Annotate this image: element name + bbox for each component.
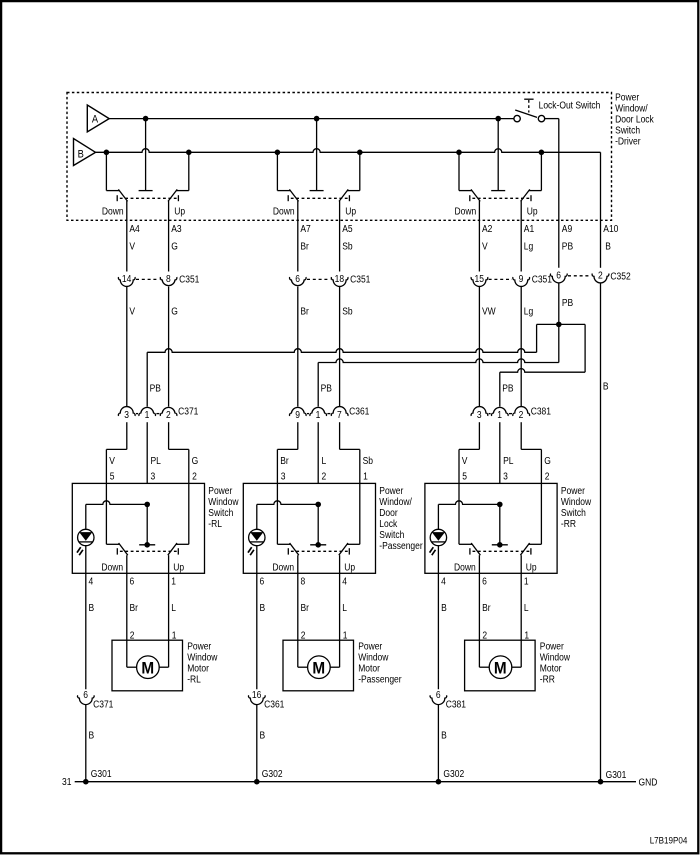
svg-text:1: 1 [524, 630, 529, 641]
power window switch RR U4 up switch [540, 483, 542, 544]
svg-text:Window: Window [561, 496, 591, 507]
wire PB bus 2 (to C361 pin 1) [317, 363, 319, 407]
connector C381 pin 1 [491, 407, 508, 416]
svg-text:G: G [544, 455, 551, 466]
svg-text:PB: PB [321, 383, 332, 394]
wire jog to box pin 3 [297, 422, 299, 449]
svg-text:2: 2 [166, 409, 171, 420]
svg-text:B: B [260, 603, 266, 614]
power window/door lock switch passenger U3 up switch [359, 483, 361, 544]
driver RR switch linkage [472, 197, 529, 199]
svg-text:-RR: -RR [561, 518, 576, 529]
svg-text:G302: G302 [262, 768, 283, 779]
svg-text:PB: PB [562, 241, 573, 252]
power window switch RL U2 LED output wire [85, 546, 87, 690]
svg-text:Br: Br [130, 603, 138, 614]
connector C352 pin 6 [550, 274, 567, 283]
power window switch RL U2 down switch [105, 483, 107, 544]
svg-text:C381: C381 [446, 699, 466, 710]
power window switch RR U4 down switch [458, 483, 460, 544]
svg-text:B: B [260, 730, 266, 741]
svg-text:8: 8 [166, 274, 171, 285]
svg-text:L7B19P04: L7B19P04 [650, 835, 688, 846]
power window switch RR U4 LED output wire [437, 546, 439, 690]
svg-text:Up: Up [527, 206, 538, 217]
driver RR pole common [497, 119, 499, 191]
connector C371 links [136, 413, 138, 415]
wire bus B [96, 149, 601, 153]
svg-text:G: G [171, 241, 178, 252]
wire jog to box pin 5 [126, 422, 128, 449]
svg-text:4: 4 [342, 576, 347, 587]
power window/door lock switch passenger U3 switch linkage [291, 550, 348, 552]
connector C371 pin 3 [118, 407, 135, 416]
power window/door lock switch passenger U3 motor feed wires [297, 555, 299, 667]
svg-text:B: B [441, 603, 447, 614]
svg-text:9: 9 [519, 274, 524, 285]
connector C361 links [307, 413, 309, 415]
connector triangle A [87, 105, 109, 132]
wire PB branch 3 (to C381 pin 1) [559, 323, 585, 325]
wire pin A4 [126, 201, 128, 272]
driver passenger up switch [359, 152, 361, 190]
svg-text:Switch: Switch [615, 125, 640, 136]
connector C371 pin 1 [139, 407, 156, 416]
svg-text:2: 2 [130, 630, 135, 641]
svg-text:Window: Window [208, 496, 238, 507]
wire Br to C361 [297, 287, 299, 407]
svg-text:V: V [129, 306, 135, 317]
svg-text:1: 1 [172, 630, 177, 641]
svg-text:1: 1 [497, 409, 502, 420]
connector C361 pin 7 [331, 407, 348, 416]
svg-text:1: 1 [316, 409, 321, 420]
svg-text:6: 6 [482, 576, 487, 587]
driver passenger switch linkage [291, 197, 348, 199]
svg-text:Motor: Motor [187, 663, 209, 674]
svg-text:1: 1 [145, 409, 150, 420]
driver RR up switch [540, 152, 542, 190]
connector C351 pin 15 [471, 277, 488, 286]
power window/door lock switch passenger U3 LED [256, 504, 258, 529]
wire B from C352 pin 2 to ground [600, 283, 602, 782]
svg-text:2: 2 [322, 471, 327, 482]
svg-text:A5: A5 [342, 223, 352, 234]
svg-text:2: 2 [192, 471, 197, 482]
svg-text:4: 4 [441, 576, 446, 587]
svg-text:Motor: Motor [540, 663, 562, 674]
svg-text:L: L [322, 455, 327, 466]
power window motor RR M3 enclosure [465, 640, 535, 691]
svg-text:Window/: Window/ [379, 496, 412, 507]
connector C351 link [307, 278, 330, 280]
wire jog to box pin 1 [339, 422, 341, 449]
node dots on bus B [104, 150, 110, 156]
svg-text:A1: A1 [524, 223, 534, 234]
wire VW to C381 [478, 287, 480, 407]
svg-text:2: 2 [545, 471, 550, 482]
svg-text:Power: Power [208, 485, 232, 496]
svg-text:6: 6 [556, 270, 561, 281]
wire pin A7 [297, 201, 299, 272]
power window switch RR U4 pole common [499, 504, 501, 544]
svg-text:G: G [171, 306, 178, 317]
svg-text:1: 1 [171, 576, 176, 587]
svg-text:3: 3 [477, 409, 482, 420]
svg-text:6: 6 [260, 576, 265, 587]
svg-text:Power: Power [561, 485, 585, 496]
power window switch RR U4 motor feed wires [478, 555, 480, 667]
svg-text:Down: Down [272, 562, 294, 573]
connector C381 links [489, 413, 491, 415]
svg-text:Down: Down [101, 562, 123, 573]
svg-text:Br: Br [482, 603, 490, 614]
svg-text:B: B [89, 730, 95, 741]
svg-text:B: B [441, 730, 447, 741]
svg-text:8: 8 [301, 576, 306, 587]
svg-text:G301: G301 [606, 769, 627, 780]
wire Lg to C381 [520, 287, 522, 407]
svg-text:Down: Down [454, 562, 476, 573]
power window/door lock switch passenger U3 enclosure [243, 483, 375, 573]
wire PB bus 1 (to C371 pin 1) [146, 352, 148, 406]
svg-text:C351: C351 [532, 274, 552, 285]
svg-text:B: B [89, 603, 95, 614]
wire PB from C352 pin 6 [558, 283, 560, 363]
svg-text:-RR: -RR [540, 674, 555, 685]
svg-text:Br: Br [300, 306, 308, 317]
svg-text:B: B [78, 149, 84, 161]
svg-text:Power: Power [379, 485, 403, 496]
power window motor RL M1 enclosure [112, 640, 183, 691]
wire to box pin 2 [317, 422, 319, 483]
power window switch RR U4 enclosure [425, 483, 557, 573]
svg-text:A4: A4 [129, 223, 139, 234]
connector C361 pin 9 [289, 407, 306, 416]
svg-text:A7: A7 [300, 223, 310, 234]
driver RL switch linkage [120, 197, 177, 199]
svg-text:Window/: Window/ [615, 103, 648, 114]
wire pin A1 [520, 201, 522, 272]
driver RR down switch [458, 152, 460, 190]
svg-text:Up: Up [173, 562, 184, 573]
svg-text:M: M [494, 659, 507, 678]
svg-text:Power: Power [187, 641, 211, 652]
svg-text:PL: PL [503, 455, 513, 466]
svg-text:V: V [129, 241, 135, 252]
svg-text:18: 18 [335, 274, 344, 285]
svg-text:2: 2 [519, 409, 524, 420]
svg-text:3: 3 [124, 409, 129, 420]
power window switch RL U2 up switch [188, 483, 190, 544]
power window switch RL U2 pole common [146, 504, 148, 544]
power window switch RL U2 motor feed wires [126, 555, 128, 667]
wire pin A5 [339, 201, 341, 272]
wire G to C371 [168, 287, 170, 407]
power window / door lock switch driver dashed enclosure [67, 93, 612, 221]
ground bus junction dots [83, 779, 89, 785]
svg-text:5: 5 [462, 471, 467, 482]
svg-text:C351: C351 [350, 274, 370, 285]
svg-text:C361: C361 [349, 406, 369, 417]
svg-text:6: 6 [295, 274, 300, 285]
svg-text:Switch: Switch [561, 507, 586, 518]
svg-text:Lg: Lg [524, 241, 533, 252]
svg-text:GND: GND [639, 777, 658, 788]
svg-text:C371: C371 [178, 406, 198, 417]
power window switch RR U4 LED [437, 504, 439, 529]
svg-text:6: 6 [436, 689, 441, 700]
svg-text:Down: Down [102, 206, 124, 217]
connector C352 link [568, 275, 591, 277]
wire jog to box pin 2 [520, 422, 522, 449]
svg-text:Up: Up [344, 562, 355, 573]
svg-text:B: B [605, 241, 611, 252]
svg-text:Motor: Motor [358, 663, 380, 674]
svg-text:A10: A10 [603, 223, 618, 234]
power window motor passenger M2 enclosure [283, 640, 354, 691]
wire to box pin 3 [499, 422, 501, 483]
svg-text:Br: Br [301, 603, 309, 614]
driver RL up switch [188, 152, 190, 190]
power window switch RL U2 LED [85, 504, 87, 529]
driver passenger pole common [316, 119, 318, 191]
svg-text:Sb: Sb [342, 306, 352, 317]
connector C351 pin 8 [160, 277, 177, 286]
power window motor RL M1 motor symbol [137, 656, 160, 679]
svg-text:7: 7 [337, 409, 342, 420]
svg-text:-Driver: -Driver [615, 136, 640, 147]
svg-text:A2: A2 [482, 223, 492, 234]
svg-text:Br: Br [280, 455, 288, 466]
svg-text:Sb: Sb [363, 455, 373, 466]
svg-text:Switch: Switch [208, 507, 233, 518]
power window/door lock switch passenger U3 illumination wire [257, 501, 318, 505]
power window motor RR M3 motor symbol [489, 656, 512, 679]
ground bus wire [75, 781, 636, 783]
wire B to ground [85, 705, 87, 782]
svg-text:V: V [109, 455, 115, 466]
svg-text:3: 3 [281, 471, 286, 482]
lock-out switch actuator [524, 98, 533, 100]
connector C361 pin 1 [310, 407, 327, 416]
svg-text:-RL: -RL [208, 518, 222, 529]
svg-text:VW: VW [482, 306, 496, 317]
wire lock-out to A9 corner [545, 118, 559, 120]
svg-text:Down: Down [273, 206, 295, 217]
svg-text:5: 5 [110, 471, 115, 482]
driver passenger down switch [276, 152, 278, 190]
svg-text:Window: Window [540, 652, 570, 663]
svg-text:14: 14 [122, 274, 131, 285]
svg-text:Up: Up [526, 562, 537, 573]
svg-text:Lock: Lock [379, 518, 397, 529]
svg-text:C351: C351 [179, 274, 199, 285]
svg-text:M: M [141, 659, 154, 678]
svg-text:-Passenger: -Passenger [379, 540, 422, 551]
power window switch RR U4 illumination wire [438, 501, 499, 505]
svg-text:A: A [92, 114, 98, 126]
wire B to ground [437, 705, 439, 782]
svg-text:1: 1 [343, 630, 348, 641]
svg-text:2: 2 [482, 630, 487, 641]
node PB junction [556, 322, 562, 328]
svg-text:3: 3 [503, 471, 508, 482]
connector C371 pin 2 [160, 407, 177, 416]
svg-text:G: G [192, 455, 199, 466]
svg-text:31: 31 [62, 777, 71, 788]
svg-text:C352: C352 [610, 271, 630, 282]
power window/door lock switch passenger U3 pole common [317, 504, 319, 544]
connector C351 pin 14 [118, 277, 135, 286]
svg-text:L: L [342, 603, 347, 614]
lock-out switch contact circles [514, 115, 520, 121]
power window switch RL U2 illumination wire [86, 501, 147, 505]
svg-text:PL: PL [151, 455, 161, 466]
wire Sb to C361 [339, 287, 341, 407]
connector C352 pin 2 [592, 274, 609, 283]
svg-text:Switch: Switch [379, 529, 404, 540]
svg-text:B: B [603, 381, 609, 392]
svg-text:Door: Door [379, 507, 397, 518]
wire B to ground [256, 705, 258, 782]
connector C381 pin 2 [513, 407, 530, 416]
svg-text:Power: Power [540, 641, 564, 652]
svg-text:Power: Power [358, 641, 382, 652]
svg-text:Lock-Out Switch: Lock-Out Switch [539, 100, 601, 111]
svg-text:C361: C361 [264, 699, 284, 710]
power window/door lock switch passenger U3 LED output wire [256, 546, 258, 690]
connector C351 pin 18 [331, 277, 348, 286]
svg-text:1: 1 [524, 576, 529, 587]
svg-text:C371: C371 [93, 699, 113, 710]
svg-text:Power: Power [615, 92, 639, 103]
svg-text:Sb: Sb [342, 241, 352, 252]
svg-text:-Passenger: -Passenger [358, 674, 401, 685]
svg-text:6: 6 [130, 576, 135, 587]
svg-text:2: 2 [598, 270, 603, 281]
svg-text:PB: PB [502, 383, 513, 394]
svg-text:1: 1 [363, 471, 368, 482]
wire bus A [109, 118, 514, 120]
wire jog to box pin 2 [168, 422, 170, 449]
svg-text:Window: Window [358, 652, 388, 663]
lock-out switch blade [515, 110, 537, 117]
connector triangle B [74, 139, 96, 166]
svg-text:L: L [524, 603, 529, 614]
svg-text:Up: Up [345, 206, 356, 217]
wire pin A2 [478, 201, 480, 272]
svg-text:G301: G301 [91, 768, 112, 779]
wire to box pin 3 [146, 422, 148, 483]
connector C351 pin 9 [513, 277, 530, 286]
power window/door lock switch passenger U3 down switch [276, 483, 278, 544]
svg-text:Window: Window [187, 652, 217, 663]
svg-text:Down: Down [455, 206, 477, 217]
svg-text:V: V [462, 455, 468, 466]
power window switch RR U4 switch linkage [473, 550, 530, 552]
svg-text:2: 2 [301, 630, 306, 641]
svg-text:G302: G302 [443, 768, 464, 779]
node dots on bus A [143, 116, 149, 122]
wire jog to box pin 5 [478, 422, 480, 449]
driver RL down switch [105, 152, 107, 190]
connector C381 pin 3 [471, 407, 488, 416]
svg-text:M: M [312, 659, 325, 678]
svg-text:V: V [482, 241, 488, 252]
power window switch RL U2 enclosure [72, 483, 204, 573]
svg-text:15: 15 [474, 274, 483, 285]
connector C351 pin 6 [289, 277, 306, 286]
svg-text:16: 16 [252, 689, 261, 700]
svg-text:PB: PB [562, 297, 573, 308]
svg-text:PB: PB [150, 383, 161, 394]
svg-text:9: 9 [295, 409, 300, 420]
svg-text:3: 3 [151, 471, 156, 482]
svg-text:4: 4 [89, 576, 94, 587]
svg-text:Br: Br [300, 241, 308, 252]
svg-text:6: 6 [83, 689, 88, 700]
driver RL pole common [145, 119, 147, 191]
svg-text:Door Lock: Door Lock [615, 114, 654, 125]
svg-text:Up: Up [174, 206, 185, 217]
svg-text:L: L [171, 603, 176, 614]
svg-text:Lg: Lg [524, 306, 533, 317]
svg-text:A9: A9 [562, 223, 572, 234]
connector C351 link [136, 278, 159, 280]
svg-text:-RL: -RL [187, 674, 201, 685]
wire V to C371 [126, 287, 128, 407]
power window switch RL U2 switch linkage [120, 550, 177, 552]
wire pin A3 [168, 201, 170, 272]
connector C351 link [489, 278, 512, 280]
svg-text:C381: C381 [531, 406, 551, 417]
svg-text:A3: A3 [171, 223, 181, 234]
power window motor passenger M2 motor symbol [308, 656, 331, 679]
wire bus B corner to A10 [600, 152, 602, 267]
